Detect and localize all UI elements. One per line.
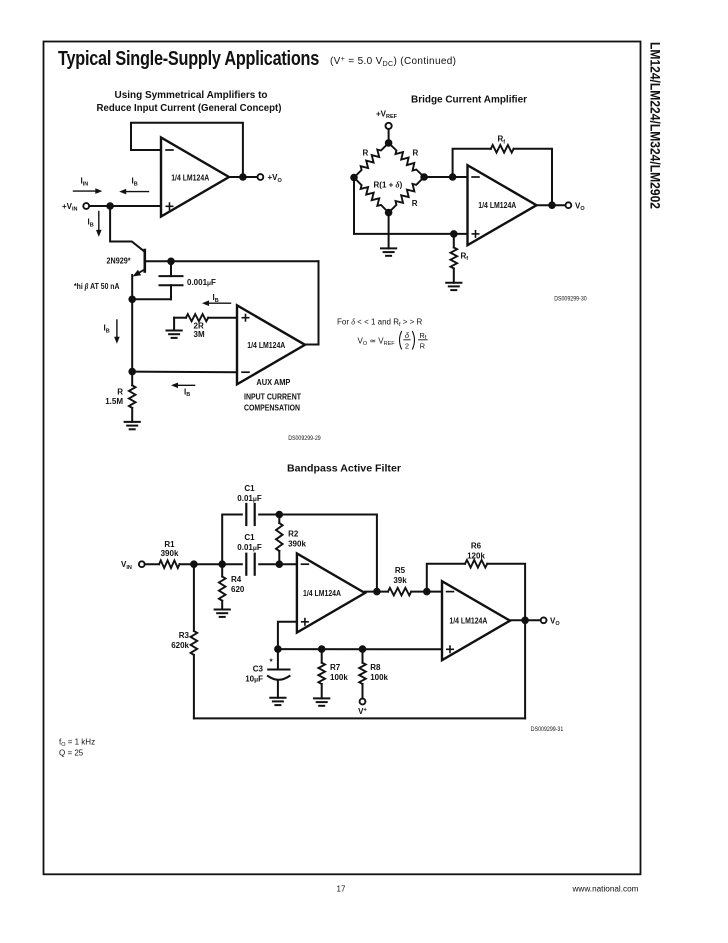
svg-text:δ: δ — [405, 331, 410, 340]
svg-text:1.5M: 1.5M — [105, 397, 123, 406]
svg-text:0.01μF: 0.01μF — [237, 543, 262, 552]
svg-text:Bandpass Active Filter: Bandpass Active Filter — [287, 463, 401, 474]
svg-text:1/4 LM124A: 1/4 LM124A — [247, 341, 285, 350]
svg-text:R2: R2 — [288, 530, 299, 539]
svg-text:R1: R1 — [164, 540, 175, 549]
svg-text:Typical Single-Supply Applicat: Typical Single-Supply Applications — [58, 47, 319, 70]
svg-text:VO ≃ VREF: VO ≃ VREF — [358, 336, 396, 347]
svg-text:LM124/LM224/LM324/LM2902: LM124/LM224/LM324/LM2902 — [648, 42, 663, 209]
svg-text:1/4 LM124A: 1/4 LM124A — [303, 589, 341, 598]
svg-text:INPUT CURRENT: INPUT CURRENT — [244, 391, 302, 401]
svg-text:1/4 LM124A: 1/4 LM124A — [478, 201, 516, 210]
svg-text:1/4 LM124A: 1/4 LM124A — [449, 617, 487, 626]
svg-text:2N929*: 2N929* — [107, 256, 132, 265]
svg-text:Using Symmetrical Amplifiers t: Using Symmetrical Amplifiers to — [115, 90, 268, 101]
svg-text:120k: 120k — [467, 551, 485, 560]
svg-text:+VREF: +VREF — [376, 109, 398, 120]
svg-text:DS009299-29: DS009299-29 — [288, 436, 321, 442]
svg-text:1/4 LM124A: 1/4 LM124A — [171, 173, 209, 182]
svg-text:R3: R3 — [179, 631, 190, 640]
svg-text:R: R — [412, 199, 418, 208]
svg-text:VO: VO — [575, 201, 585, 212]
svg-text:*hi β AT 50 nA: *hi β AT 50 nA — [74, 282, 120, 291]
svg-text:0.001μF: 0.001μF — [187, 278, 216, 287]
svg-text:R4: R4 — [231, 575, 242, 584]
svg-text:0.01μF: 0.01μF — [237, 494, 262, 503]
svg-text:V+: V+ — [358, 707, 367, 716]
svg-text:*: * — [270, 658, 274, 667]
svg-text:10μF: 10μF — [245, 674, 263, 683]
svg-text:Reduce Input Current (General: Reduce Input Current (General Concept) — [97, 103, 282, 114]
svg-text:R: R — [117, 388, 123, 397]
svg-text:Rf: Rf — [498, 135, 506, 146]
svg-text:Rf: Rf — [461, 251, 469, 262]
svg-text:R7: R7 — [330, 663, 341, 672]
svg-text:AUX AMP: AUX AMP — [256, 377, 290, 387]
svg-text:VO: VO — [550, 616, 560, 627]
svg-text:Bridge Current Amplifier: Bridge Current Amplifier — [411, 95, 527, 106]
svg-text:+VIN: +VIN — [62, 202, 78, 213]
svg-text:IIN: IIN — [81, 177, 89, 188]
svg-text:Q = 25: Q = 25 — [59, 748, 84, 757]
svg-text:17: 17 — [337, 885, 346, 894]
svg-text:+VO: +VO — [268, 173, 283, 184]
svg-text:For δ < < 1 and Rf > > R: For δ < < 1 and Rf > > R — [337, 318, 423, 329]
svg-text:(V+ = 5.0 VDC) (Continued): (V+ = 5.0 VDC) (Continued) — [330, 56, 456, 68]
svg-text:2: 2 — [405, 341, 409, 350]
svg-text:DS009299-31: DS009299-31 — [531, 727, 564, 733]
svg-text:C1: C1 — [244, 484, 255, 493]
svg-text:390k: 390k — [161, 549, 179, 558]
svg-text:3M: 3M — [194, 330, 205, 339]
svg-text:IB: IB — [104, 324, 110, 335]
svg-text:R: R — [413, 148, 419, 157]
svg-text:100k: 100k — [330, 673, 348, 682]
svg-text:390k: 390k — [288, 540, 306, 549]
svg-text:620k: 620k — [171, 641, 189, 650]
svg-text:R6: R6 — [471, 541, 482, 550]
svg-text:DS009299-30: DS009299-30 — [554, 296, 587, 302]
svg-text:39k: 39k — [393, 576, 407, 585]
svg-text:VIN: VIN — [121, 560, 132, 571]
svg-text:R(1 + δ): R(1 + δ) — [374, 181, 403, 190]
svg-text:IB: IB — [184, 387, 190, 398]
svg-text:www.national.com: www.national.com — [571, 885, 638, 894]
svg-text:R5: R5 — [395, 566, 406, 575]
svg-text:100k: 100k — [370, 673, 388, 682]
svg-text:IB: IB — [88, 218, 94, 229]
svg-text:620: 620 — [231, 585, 245, 594]
svg-text:COMPENSATION: COMPENSATION — [244, 402, 300, 412]
svg-text:C1: C1 — [244, 533, 255, 542]
svg-text:C3: C3 — [253, 664, 264, 673]
svg-text:R: R — [420, 341, 426, 350]
svg-text:fO = 1 kHz: fO = 1 kHz — [59, 737, 95, 748]
svg-text:R8: R8 — [370, 663, 381, 672]
svg-text:IB: IB — [213, 293, 219, 304]
svg-text:R: R — [363, 148, 369, 157]
svg-text:IB: IB — [132, 177, 138, 188]
